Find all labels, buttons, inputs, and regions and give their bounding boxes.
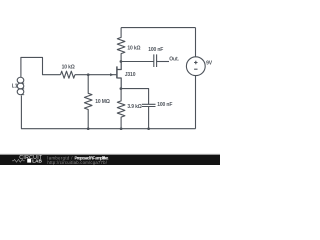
- node ground dot under 10M: [87, 127, 90, 130]
- capacitor C1 100nF output plates: [154, 54, 157, 67]
- svg-text:10 kΩ: 10 kΩ: [62, 65, 75, 71]
- capacitor C2 100nF bypass plates: [142, 104, 156, 106]
- logo square icon: [27, 159, 31, 163]
- transistor Q1 J310 drain stub: [117, 62, 121, 70]
- svg-text:Out.: Out.: [169, 56, 179, 62]
- transistor Q1 J310 channel bar: [116, 66, 118, 78]
- node ground dot under 3.9k: [120, 127, 123, 130]
- inductor L1 coil loop 3: [17, 89, 24, 95]
- wire gate resistor to JFET gate: [75, 74, 117, 76]
- wire bypass capacitor to ground rail: [148, 107, 150, 129]
- wire right rail upper to 9V source: [195, 28, 197, 57]
- svg-text:100 nF: 100 nF: [148, 47, 163, 53]
- svg-text:100 nF: 100 nF: [157, 102, 172, 108]
- inductor L1 coil loop 2: [17, 83, 24, 89]
- svg-text:J310: J310: [125, 72, 136, 78]
- resistor R2 10k gate (horizontal zigzag): [61, 71, 75, 78]
- voltage source V1 minus sign: [194, 68, 197, 70]
- node source junction dot: [120, 87, 123, 90]
- svg-text:L1: L1: [12, 84, 18, 90]
- svg-text:LAB: LAB: [32, 159, 42, 164]
- inductor L1 coil loop 1: [17, 77, 24, 83]
- wire L1 bottom to ground rail: [20, 95, 22, 128]
- svg-text:9V: 9V: [206, 61, 213, 67]
- wire right rail lower from 9V source to ground rail: [195, 76, 197, 129]
- wire top rail: [121, 27, 195, 29]
- transistor Q1 J310 source stub: [117, 78, 121, 89]
- wire bottom ground rail: [21, 128, 195, 130]
- wire inductor top to gate resistor (staircase): [21, 57, 61, 77]
- resistor R4 3.9k source (vertical zigzag): [117, 89, 125, 129]
- wire source node to bypass capacitor: [121, 89, 149, 105]
- node drain junction dot: [120, 60, 123, 63]
- watermark banner soft top edge: [0, 154, 220, 156]
- logo resistor zigzag: [12, 159, 25, 162]
- resistor R1 10k drain (vertical zigzag): [117, 28, 125, 62]
- transistor Q1 gate arrow: [110, 73, 113, 76]
- svg-text:3.9 kΩ: 3.9 kΩ: [127, 104, 141, 110]
- voltage source V1 plus sign: [194, 61, 197, 64]
- svg-text:10 MΩ: 10 MΩ: [95, 99, 110, 105]
- svg-text:10 kΩ: 10 kΩ: [127, 45, 140, 51]
- inductor L1 coil ticks: [21, 83, 24, 95]
- resistor R3 10M vertical gate bias: [84, 75, 92, 129]
- node gate junction dot: [87, 73, 90, 76]
- voltage source V1 circle: [186, 57, 205, 76]
- svg-text:http://circuitlab.com/cga77b/: http://circuitlab.com/cga77b/: [47, 160, 107, 165]
- wire output capacitor to Out label: [157, 61, 169, 63]
- node ground dot under bypass cap: [147, 127, 150, 130]
- wire drain node to output capacitor: [121, 61, 154, 63]
- watermark banner background: [0, 155, 220, 165]
